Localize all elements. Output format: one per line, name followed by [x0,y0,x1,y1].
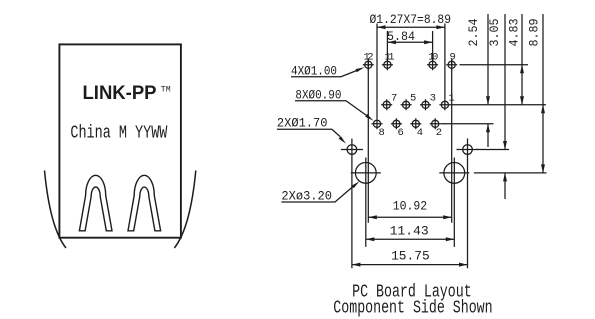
arrow 3.05 down [503,141,507,150]
leader line 2X1.70 [277,129,340,136]
mounting hole 3.20 left [355,163,376,184]
arrow 8.89 right [436,25,445,29]
vertical dimension line 2.54 [487,14,489,147]
svg-text:5: 5 [410,93,416,105]
leader line 4X1.00 [291,70,358,77]
svg-text:12: 12 [364,52,374,64]
arrow 10.92 right [443,215,452,219]
extension line pin 1 from 8.89 dim [444,24,446,100]
pad 6 [393,120,400,127]
svg-text:15.75: 15.75 [391,248,430,263]
arrow 11.43 left [366,237,375,241]
svg-text:3.05: 3.05 [487,19,502,47]
extension line pin 8 from 8.89 dim [376,24,378,119]
dimension line 15.75 [352,264,468,266]
mounting hole 1.70 left [347,145,357,155]
arrow 15.75 right [459,263,468,267]
arrow 8.89r down [541,164,545,173]
svg-text:10.92: 10.92 [393,199,428,214]
svg-text:9: 9 [450,52,456,64]
contact staple right [128,175,161,231]
svg-text:8: 8 [379,127,385,139]
extension line big hole left to 11.43 [365,158,367,247]
pad 12 [365,61,372,68]
arrow 4.83 down [520,96,524,105]
datum line big hole right [474,172,547,174]
svg-text:2.54: 2.54 [466,18,481,46]
arrow 8.89r up [541,105,545,114]
dimension line 5.84 [387,41,432,43]
svg-text:4.83: 4.83 [507,19,522,47]
pad 3 [422,101,429,108]
svg-text:8.89: 8.89 [527,19,542,47]
leader line 8X0.90 [295,101,368,117]
arrow 2.54 down [486,96,490,105]
connector body outline [59,44,180,237]
pad 10 [429,61,436,68]
extension line small hole right to 15.75 [467,139,469,269]
left latch whisker [45,171,67,249]
dimension line 10.92 [368,216,451,218]
svg-text:10: 10 [428,52,438,64]
svg-text:1: 1 [449,93,455,105]
extension line pad12 to 10.92 [367,59,369,223]
pad 8 [373,120,380,127]
dimension line 11.43 [366,238,455,240]
svg-text:7: 7 [391,93,397,105]
vertical dimension line 8.89 right [542,14,544,173]
svg-text:6: 6 [398,127,404,139]
arrow leader 3.20 [352,181,360,188]
svg-text:11: 11 [385,52,395,64]
arrow 5.84 left [387,40,396,44]
svg-text:2: 2 [436,127,442,139]
svg-text:Component Side Shown: Component Side Shown [333,299,492,319]
svg-text:4XØ1.00: 4XØ1.00 [291,63,337,78]
svg-text:Ø1.27X7=8.89: Ø1.27X7=8.89 [370,12,452,27]
datum line LED row right [460,64,529,66]
datum line pin2 row right [441,123,494,125]
pad 5 [403,101,410,108]
pad 1 [441,101,448,108]
datum line pin1 row right [450,104,546,106]
svg-text:TM: TM [161,85,171,95]
svg-text:2Xø3.20: 2Xø3.20 [281,188,332,203]
datum line small hole right [476,149,509,151]
arrow 5.84 right [424,40,433,44]
right latch whisker [174,171,196,249]
arrow 10.92 left [368,215,377,219]
svg-text:4: 4 [417,127,423,139]
leader line 2X3.20 [281,187,353,203]
vertical dimension line 4.83 [521,14,523,105]
pad 7 [383,101,390,108]
extension line pad 11 from 5.84 dim [386,31,388,59]
arrow 15.75 left [352,263,361,267]
extension line small hole left to 15.75 [351,139,353,269]
arrow 4.83 up [520,65,524,74]
svg-text:China M YYWW: China M YYWW [70,123,167,143]
vertical dimension line 3.05 [504,14,506,199]
arrow 2.54 up [486,124,490,133]
pad 4 [412,120,419,127]
svg-text:LINK-PP: LINK-PP [83,82,157,104]
svg-text:2XØ1.70: 2XØ1.70 [277,116,328,131]
mounting hole 1.70 right [463,145,473,155]
pad 9 [448,61,455,68]
svg-text:8XØ0.90: 8XØ0.90 [295,87,341,102]
arrow leader 1.00 [356,67,365,72]
arrow 3.05 up [503,173,507,182]
svg-text:11.43: 11.43 [390,224,429,239]
extension line big hole right to 11.43 [453,158,455,247]
contact staple left [79,175,112,231]
pad 11 [384,61,391,68]
svg-text:3: 3 [430,93,436,105]
arrow 11.43 right [446,237,455,241]
mounting hole 3.20 right [444,163,465,184]
svg-text:5.84: 5.84 [387,29,415,44]
extension line pad 10 from 5.84 dim [432,31,434,59]
arrow leader 1.70 [339,136,347,144]
arrow leader 0.90 [365,114,373,121]
pad 2 [432,120,439,127]
arrow 8.89 left [377,25,386,29]
extension line pad9 to 10.92 [451,59,453,223]
dimension line 8.89 top [377,26,445,28]
